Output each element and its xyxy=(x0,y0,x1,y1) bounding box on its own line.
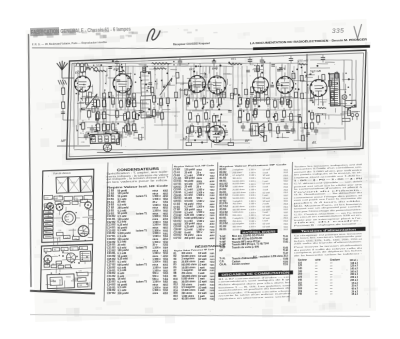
svg-text:mica: mica xyxy=(196,209,202,211)
capacitor psu xyxy=(314,127,319,135)
svg-text:4052: 4052 xyxy=(210,234,216,237)
svg-text:5.000: 5.000 xyxy=(205,87,210,89)
svg-text:7052: 7052 xyxy=(163,290,169,292)
svg-text:HP: HP xyxy=(219,249,223,252)
table CONDENSATEURS title xyxy=(117,167,160,172)
svg-text:50: 50 xyxy=(256,84,258,86)
svg-text:mica: mica xyxy=(152,292,158,295)
svg-text:mica: mica xyxy=(196,238,202,240)
svg-text:7052: 7052 xyxy=(210,279,216,281)
svg-text:C7: C7 xyxy=(229,85,231,87)
svg-text:7453: 7453 xyxy=(210,231,216,234)
svg-text:200 pmfd: 200 pmfd xyxy=(117,292,129,295)
svg-text:7454: 7454 xyxy=(163,278,169,281)
svg-text:4052: 4052 xyxy=(163,212,169,215)
svg-text:mica: mica xyxy=(196,181,202,183)
psu extra parts xyxy=(316,60,358,114)
label BF xyxy=(245,139,250,143)
svg-text:335: 335 xyxy=(332,28,345,35)
table CONDENSATEURS colA rows xyxy=(104,188,173,298)
svg-text:Alt.: Alt. xyxy=(311,141,317,145)
svg-text:R15: R15 xyxy=(250,64,254,66)
table ORGANES bar xyxy=(218,270,293,277)
mains plug xyxy=(351,113,359,120)
svg-text:C37 B2: C37 B2 xyxy=(107,292,116,295)
gang capacitor CV2 xyxy=(68,177,81,194)
svg-text:4052: 4052 xyxy=(210,180,216,183)
svg-text:R8: R8 xyxy=(52,264,54,266)
table MATERIEL DIVERS rows xyxy=(219,233,290,269)
svg-text:20: 20 xyxy=(222,125,224,127)
pencil dark patch xyxy=(30,27,76,37)
svg-text:4052: 4052 xyxy=(163,227,169,230)
component row top-view xyxy=(44,194,93,201)
column rule 1 xyxy=(99,162,112,301)
coil birds left xyxy=(76,62,98,70)
svg-text:120 pmfd: 120 pmfd xyxy=(184,169,195,171)
svg-text:R2: R2 xyxy=(205,75,207,77)
svg-text:7052: 7052 xyxy=(163,222,169,224)
svg-text:C11: C11 xyxy=(45,218,48,220)
tube V6 6V6 xyxy=(276,67,294,94)
svg-text:1/2 watt: 1/2 watt xyxy=(262,177,270,180)
svg-text:7253: 7253 xyxy=(210,172,216,174)
svg-text:C9: C9 xyxy=(93,132,95,134)
resistor group output xyxy=(266,94,293,136)
svg-text:C14 B1: C14 B1 xyxy=(173,180,182,183)
table CONDENSATEURS intro xyxy=(106,171,169,184)
svg-text:1/2 watt: 1/2 watt xyxy=(198,292,207,295)
svg-text:mica: mica xyxy=(196,178,202,180)
svg-text:R12: R12 xyxy=(180,84,184,86)
svg-text:1/2 watt: 1/2 watt xyxy=(262,222,270,225)
coil L1 xyxy=(94,63,106,72)
svg-text:245: 245 xyxy=(298,293,303,296)
svg-text:Isolem T1: Isolem T1 xyxy=(136,280,148,283)
svg-text:7453: 7453 xyxy=(163,272,169,275)
svg-text:50 pmfd: 50 pmfd xyxy=(184,181,194,183)
svg-text:C17: C17 xyxy=(195,116,199,118)
svg-text:7054: 7054 xyxy=(163,267,169,270)
svg-text:7053: 7053 xyxy=(210,227,216,229)
svg-text:C35 B1: C35 B1 xyxy=(173,201,182,203)
table CONDENSATEURS colB rows xyxy=(171,168,217,241)
svg-text:7253: 7253 xyxy=(210,187,216,189)
svg-text:1/2 watt: 1/2 watt xyxy=(198,269,207,272)
svg-text:1 watt: 1 watt xyxy=(262,194,268,197)
paraph mark xyxy=(147,29,161,41)
svg-text:245 à 2: 245 à 2 xyxy=(350,279,358,282)
capacitor group stage4 xyxy=(214,125,224,136)
svg-text:0,5 mégohm: 0,5 mégohm xyxy=(232,175,244,177)
svg-text:7141: 7141 xyxy=(283,235,289,238)
svg-text:7052: 7052 xyxy=(210,262,216,264)
handwritten folio 335 V xyxy=(332,24,362,39)
under-view parts row xyxy=(44,246,88,252)
svg-text:7051: 7051 xyxy=(210,218,216,220)
header left imprint xyxy=(32,40,108,47)
socket with spokes top-view xyxy=(78,225,89,236)
svg-text:1.500 v: 1.500 v xyxy=(196,221,205,223)
svg-text:7053: 7053 xyxy=(163,225,169,227)
svg-text:7145: 7145 xyxy=(283,246,289,249)
svg-text:7052: 7052 xyxy=(210,190,216,192)
svg-text:1/2 watt: 1/2 watt xyxy=(198,280,207,283)
under-view transformer xyxy=(80,251,91,261)
tube V3 6K7 xyxy=(188,67,206,93)
svg-text:7454: 7454 xyxy=(210,197,216,200)
svg-text:50.000 ohms: 50.000 ohms xyxy=(232,198,244,200)
svg-text:7054: 7054 xyxy=(210,183,216,186)
svg-text:7253: 7253 xyxy=(163,202,169,204)
capacitor group output xyxy=(284,123,296,135)
svg-text:7052: 7052 xyxy=(163,230,169,232)
tube socket S1 top-view xyxy=(46,202,53,209)
svg-text:1/2 watt: 1/2 watt xyxy=(262,199,270,202)
tube V1 ECH3 xyxy=(74,70,91,92)
svg-text:7051: 7051 xyxy=(210,256,216,258)
svg-text:7052: 7052 xyxy=(210,296,216,298)
notes line extra xyxy=(294,222,364,227)
svg-text:7253: 7253 xyxy=(163,245,169,247)
svg-text:1 watt: 1 watt xyxy=(262,211,268,214)
svg-text:7052: 7052 xyxy=(210,192,216,194)
tube V5 6Q7 xyxy=(252,69,269,94)
svg-text:MF1: MF1 xyxy=(231,57,237,61)
table CONDENSATEURS colA header xyxy=(107,185,170,190)
svg-text:0,5: 0,5 xyxy=(301,131,304,133)
svg-text:1 watt: 1 watt xyxy=(198,261,205,264)
svg-text:7051: 7051 xyxy=(210,282,216,284)
svg-text:1 watt: 1 watt xyxy=(198,272,205,275)
notes column paragraph 1 xyxy=(294,163,364,179)
svg-text:C31: C31 xyxy=(124,137,128,139)
svg-text:1/2 watt: 1/2 watt xyxy=(262,214,270,217)
svg-text:7052: 7052 xyxy=(163,199,169,201)
svg-text:7051: 7051 xyxy=(210,253,216,255)
fuse xyxy=(342,118,350,121)
MF transformer T-B xyxy=(140,100,151,118)
table MATERIEL DIVERS bar xyxy=(240,229,277,235)
svg-text:7052: 7052 xyxy=(163,211,169,213)
svg-text:7054: 7054 xyxy=(163,204,169,207)
svg-text:1/2 watt: 1/2 watt xyxy=(198,275,207,278)
table RESISTANCES title xyxy=(195,243,225,249)
svg-text:100 pmfd: 100 pmfd xyxy=(184,178,195,180)
junction dots and stray wiring xyxy=(74,51,361,153)
tube socket S2 top-view xyxy=(56,203,63,210)
svg-text:7151: 7151 xyxy=(283,264,289,266)
svg-text:7054: 7054 xyxy=(210,228,216,231)
table colC rows xyxy=(217,166,290,233)
svg-text:1.500 v: 1.500 v xyxy=(196,201,205,203)
under-view small bits xyxy=(44,250,88,268)
column rule 2 xyxy=(167,164,175,240)
column rule 4 xyxy=(284,162,297,302)
chassis extra wiring xyxy=(41,197,97,292)
tube pin wires xyxy=(78,83,323,114)
svg-text:2 watts: 2 watts xyxy=(198,283,207,286)
svg-text:4052: 4052 xyxy=(210,237,216,240)
svg-text:Isolem T1: Isolem T1 xyxy=(136,263,148,266)
notes band positions xyxy=(294,177,363,182)
svg-text:1.500 v: 1.500 v xyxy=(196,229,205,231)
svg-text:R14: R14 xyxy=(45,223,48,225)
wire cross horizontals xyxy=(79,59,355,149)
svg-text:1 watt: 1 watt xyxy=(262,188,268,191)
svg-text:C2: C2 xyxy=(106,75,108,77)
svg-text:25 v: 25 v xyxy=(196,187,201,189)
table RESISTANCES colB header xyxy=(174,248,215,252)
svg-text:R16: R16 xyxy=(173,296,178,298)
schematic border inner xyxy=(66,53,367,157)
notes paragraph tensions xyxy=(294,232,364,246)
resistor group stage5 xyxy=(238,94,258,123)
svg-text:2 watts: 2 watts xyxy=(262,202,269,205)
svg-text:C19: C19 xyxy=(58,230,61,232)
svg-text:7054: 7054 xyxy=(163,286,169,289)
svg-text:7051: 7051 xyxy=(210,270,216,272)
svg-text:1/2 watt: 1/2 watt xyxy=(262,217,270,220)
sheet bottom-left heavy rule xyxy=(30,289,95,296)
svg-text:R3: R3 xyxy=(160,103,162,105)
svg-text:7051: 7051 xyxy=(210,293,216,295)
wire ground bus xyxy=(74,140,360,159)
svg-text:1/2 watt: 1/2 watt xyxy=(198,298,207,301)
svg-text:1 watt: 1 watt xyxy=(262,185,268,188)
chassis under-view box xyxy=(39,244,94,291)
svg-text:C21: C21 xyxy=(79,123,83,125)
svg-text:1 watt: 1 watt xyxy=(262,220,268,223)
svg-text:1/2 watt: 1/2 watt xyxy=(198,286,207,289)
svg-text:1/2 watt: 1/2 watt xyxy=(262,174,270,177)
svg-text:R9: R9 xyxy=(142,127,144,129)
svg-text:7052: 7052 xyxy=(210,290,216,292)
svg-text:7052: 7052 xyxy=(163,262,169,264)
svg-text:7453: 7453 xyxy=(163,275,169,278)
capacitor group stage2 xyxy=(118,129,133,140)
svg-text:1/2 watt: 1/2 watt xyxy=(262,191,270,194)
chassis top-view box xyxy=(39,169,96,242)
svg-text:1 watt: 1 watt xyxy=(262,180,268,183)
resistor group stage2 xyxy=(110,94,131,135)
svg-text:C30: C30 xyxy=(45,197,48,199)
wire main verticals xyxy=(71,53,355,159)
svg-text:R15: R15 xyxy=(173,293,178,295)
wire AVC bus xyxy=(74,61,233,72)
svg-text:C37 B2: C37 B2 xyxy=(173,238,182,240)
resistor group psu xyxy=(310,110,320,132)
svg-text:4052: 4052 xyxy=(163,292,169,295)
svg-text:4052: 4052 xyxy=(210,177,216,180)
sheet left edge shadow xyxy=(23,34,37,287)
svg-text:C5 A1: C5 A1 xyxy=(173,171,180,174)
svg-text:R5: R5 xyxy=(260,137,262,139)
chassis under-view extra detail xyxy=(43,248,86,282)
capacitor C mid xyxy=(156,110,161,118)
svg-text:4052: 4052 xyxy=(163,249,169,252)
svg-text:7052: 7052 xyxy=(210,195,216,197)
antenna input chain xyxy=(60,78,74,121)
IF unit box xyxy=(90,134,119,144)
svg-text:C24: C24 xyxy=(212,68,216,70)
column rule 3 xyxy=(210,162,223,301)
svg-text:4052: 4052 xyxy=(210,169,216,172)
svg-text:mica: mica xyxy=(196,224,202,226)
svg-text:R17: R17 xyxy=(173,299,178,301)
resistor group stage3 xyxy=(152,93,164,123)
svg-text:1/2 watt: 1/2 watt xyxy=(198,255,207,258)
svg-text:7053: 7053 xyxy=(163,259,169,261)
svg-text:1/2 watt: 1/2 watt xyxy=(262,205,270,208)
svg-text:7051: 7051 xyxy=(210,259,216,261)
svg-text:7143: 7143 xyxy=(283,241,289,244)
svg-text:7052: 7052 xyxy=(163,242,169,244)
svg-text:7052: 7052 xyxy=(210,207,216,209)
wire thin verticals extra xyxy=(101,59,304,146)
svg-text:5.000 pmfd: 5.000 pmfd xyxy=(184,218,197,220)
svg-text:4052: 4052 xyxy=(210,223,216,226)
svg-text:7054: 7054 xyxy=(163,247,169,250)
svg-text:7053: 7053 xyxy=(210,285,216,287)
svg-text:R6 B1: R6 B1 xyxy=(219,228,227,231)
svg-text:200 pmfd: 200 pmfd xyxy=(184,209,195,211)
ladder chains xyxy=(95,95,137,137)
svg-text:500.000 ohms: 500.000 ohms xyxy=(232,209,245,211)
svg-text:S1: S1 xyxy=(71,249,73,251)
svg-text:Isolem T1: Isolem T1 xyxy=(136,212,148,215)
pilot lamp xyxy=(342,95,347,100)
sheet bottom edge xyxy=(30,303,370,327)
svg-text:4052: 4052 xyxy=(163,190,169,193)
svg-text:5.000 ohms: 5.000 ohms xyxy=(232,212,243,214)
wire under socket xyxy=(97,152,123,154)
svg-text:7052: 7052 xyxy=(210,175,216,177)
svg-text:1 watt: 1 watt xyxy=(198,295,205,298)
svg-text:C14: C14 xyxy=(132,120,136,122)
rectifier V7 5Y3GB xyxy=(309,69,327,97)
variable capacitor CV arrows xyxy=(85,78,173,108)
svg-text:mica: mica xyxy=(196,204,202,206)
notes bar tensions xyxy=(291,227,365,234)
svg-text:C19: C19 xyxy=(225,135,229,137)
pencil note top-left xyxy=(31,23,218,42)
svg-text:mica: mica xyxy=(196,235,202,237)
table colC header xyxy=(219,164,287,168)
svg-text:1/2 watt: 1/2 watt xyxy=(198,252,207,255)
svg-text:C1: C1 xyxy=(45,250,47,252)
svg-text:4052: 4052 xyxy=(163,218,169,221)
schematic border outer xyxy=(63,50,369,159)
svg-text:Isolem T1: Isolem T1 xyxy=(136,246,148,249)
svg-text:15 m: 15 m xyxy=(80,133,85,135)
svg-text:7147: 7147 xyxy=(283,252,289,255)
svg-text:7054: 7054 xyxy=(163,235,169,238)
label MF xyxy=(61,139,67,143)
svg-text:Isolem T1: Isolem T1 xyxy=(136,195,148,198)
svg-text:7051: 7051 xyxy=(210,299,216,301)
svg-text:4052: 4052 xyxy=(163,207,169,210)
svg-text:CH.AL: CH.AL xyxy=(219,263,227,266)
svg-text:C6: C6 xyxy=(62,249,64,251)
wire B+ bus xyxy=(74,56,304,71)
svg-text:7052: 7052 xyxy=(210,267,216,269)
table ORGANES paragraph xyxy=(218,275,293,300)
svg-text:7052: 7052 xyxy=(210,273,216,275)
svg-text:25 v: 25 v xyxy=(196,172,201,174)
svg-text:C34 B2: C34 B2 xyxy=(173,234,182,237)
label Cv xyxy=(59,195,63,198)
mains switch xyxy=(347,104,356,109)
svg-text:R2: R2 xyxy=(45,232,47,234)
svg-text:R10: R10 xyxy=(173,279,178,281)
tube V4 6H8 xyxy=(207,66,226,94)
svg-text:1 watt: 1 watt xyxy=(198,278,205,281)
loudspeaker xyxy=(259,123,265,137)
svg-text:45 à 2: 45 à 2 xyxy=(352,293,359,296)
table RESISTANCES colB rows xyxy=(172,252,217,303)
output transformer xyxy=(250,123,258,136)
header model name xyxy=(173,41,210,46)
svg-text:7052: 7052 xyxy=(163,253,169,255)
MF transformer T-A xyxy=(141,72,152,96)
svg-text:C4 B1: C4 B1 xyxy=(173,205,180,208)
svg-text:0,25: 0,25 xyxy=(154,83,158,85)
svg-text:7051: 7051 xyxy=(210,276,216,278)
coil L2 oscillator xyxy=(152,62,169,69)
svg-text:1 M: 1 M xyxy=(116,132,120,134)
header rule xyxy=(32,41,253,57)
svg-text:4052: 4052 xyxy=(163,284,169,287)
svg-text:C26: C26 xyxy=(65,237,68,239)
capacitor group stage5 xyxy=(241,123,254,135)
svg-text:C12: C12 xyxy=(309,85,313,87)
svg-text:7051: 7051 xyxy=(163,233,169,235)
antenna xyxy=(57,61,74,85)
tube top leads xyxy=(79,57,288,85)
small parts stack top-view xyxy=(43,210,54,238)
svg-text:1/2 watt: 1/2 watt xyxy=(262,225,270,228)
svg-text:7054: 7054 xyxy=(163,215,169,218)
under-view socket A xyxy=(44,255,52,263)
resistor group stage4 xyxy=(186,94,223,139)
svg-text:B6: B6 xyxy=(59,264,61,266)
svg-text:1/2 watt: 1/2 watt xyxy=(262,182,270,185)
svg-text:0,5: 0,5 xyxy=(142,74,145,76)
svg-text:7051: 7051 xyxy=(210,287,216,289)
svg-text:4052: 4052 xyxy=(163,192,169,195)
svg-text:1/2 watt: 1/2 watt xyxy=(262,197,270,200)
svg-text:7142: 7142 xyxy=(283,238,289,241)
svg-text:200 pmfd: 200 pmfd xyxy=(184,238,195,240)
svg-text:C4: C4 xyxy=(227,73,229,75)
notes paragraph MD xyxy=(294,202,364,213)
small parts bottom top-view xyxy=(56,232,79,240)
notes paragraph CV xyxy=(294,180,364,194)
svg-text:4052: 4052 xyxy=(163,255,169,258)
svg-text:4052: 4052 xyxy=(163,238,169,241)
svg-text:R9: R9 xyxy=(74,239,76,241)
label HF xyxy=(183,137,189,141)
svg-text:200: 200 xyxy=(194,78,197,80)
svg-text:1.500 v: 1.500 v xyxy=(196,175,205,177)
chassis top-view extra detail xyxy=(44,196,94,242)
svg-text:1/2 watt: 1/2 watt xyxy=(198,263,207,266)
under-view main block TR xyxy=(47,274,74,289)
svg-text:C31: C31 xyxy=(78,271,81,273)
under-view divider xyxy=(41,268,92,270)
svg-text:7054: 7054 xyxy=(210,211,216,214)
